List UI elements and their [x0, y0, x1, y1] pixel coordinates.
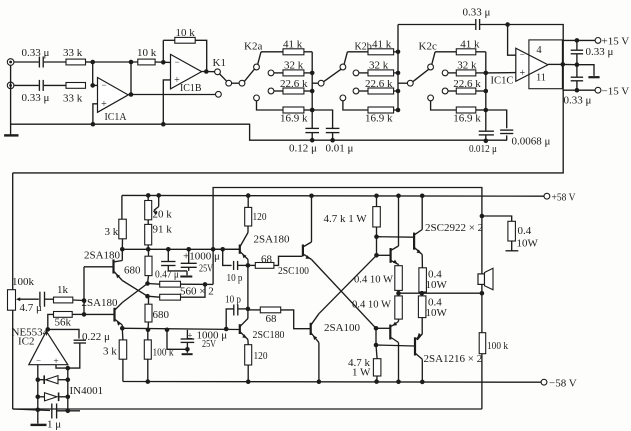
svg-text:K2a: K2a — [244, 41, 262, 53]
switch K1 pole contact — [215, 69, 221, 75]
wire 20k-91k — [147, 220, 149, 225]
junction 120l rail — [246, 379, 251, 384]
label R26 0.4 — [518, 225, 532, 237]
wire Q10 collector down — [421, 359, 423, 382]
wire Q8 collector down — [398, 343, 400, 382]
wire Q9 emitter stub — [421, 255, 423, 268]
label R22 0.4 10W — [352, 299, 392, 311]
svg-text:11: 11 — [536, 73, 546, 84]
wire 120u stubs — [247, 196, 249, 233]
label K2c 22.6k — [453, 78, 481, 90]
terminal +15V — [595, 38, 601, 44]
wire C9 verticals — [576, 66, 578, 90]
svg-text:+: + — [101, 99, 107, 110]
label IC2 — [18, 336, 35, 348]
resistor R2 33k — [66, 83, 86, 89]
wire C1 to R1 — [44, 61, 66, 63]
junction 20k wiper tap — [156, 193, 161, 198]
svg-text:41 k: 41 k — [283, 39, 303, 51]
diode D1 IN4001 left-pointing — [38, 375, 68, 384]
resistor R4 10k feedback — [175, 37, 195, 43]
svg-text:4.7 k 1 W: 4.7 k 1 W — [324, 213, 368, 225]
junction row249 fb — [211, 247, 216, 252]
label R16 68 — [266, 313, 278, 325]
svg-text:K1: K1 — [213, 57, 226, 69]
wire Q3 emitter down — [247, 260, 249, 266]
label K2c 41k — [460, 39, 480, 51]
resistor R12 560 lower — [160, 294, 181, 300]
speaker LS — [478, 268, 493, 290]
wire 68l left — [248, 309, 260, 311]
junction 680l rail — [146, 328, 151, 333]
junction C17 bottom — [185, 347, 190, 352]
capacitor C12 1u — [52, 404, 57, 419]
wire +58 rail — [122, 194, 544, 197]
junction Q5 collector rail — [309, 194, 314, 199]
resistor R16 68 lower — [260, 307, 280, 313]
label C3 0.12u — [289, 143, 317, 155]
wire D1 diagonal — [312, 260, 377, 329]
wire Q7 emitter stub — [398, 265, 400, 266]
svg-text:−: − — [36, 355, 41, 365]
svg-text:22.6 k: 22.6 k — [453, 78, 481, 90]
resistor R15 120 lower — [245, 345, 252, 365]
wire K2a 16.9k drop — [257, 101, 284, 110]
svg-text:0.33 μ: 0.33 μ — [586, 46, 614, 58]
wire C14 top — [188, 249, 190, 263]
junction IC1A gnd — [91, 122, 96, 127]
capacitor C2 0.33u — [39, 80, 43, 91]
junction gnd rail left — [36, 408, 41, 413]
label IN4001 — [70, 385, 104, 397]
gnd stub C17 — [182, 353, 193, 355]
label R24 10W — [426, 279, 448, 291]
resistor R22 0.4 10W — [395, 296, 403, 319]
wire 56k row — [72, 313, 84, 315]
wire C17 top — [186, 330, 188, 339]
wire node A to node B — [92, 62, 94, 85]
junction K2b bus — [396, 71, 401, 76]
wire bottom return — [13, 408, 482, 410]
capacitor C14 1000u 25V — [181, 263, 197, 267]
junction K2c bus rail — [484, 139, 489, 144]
svg-text:IC1B: IC1B — [180, 82, 202, 94]
switch K1 armature 1 — [220, 74, 227, 81]
label Q6 2SA100 — [324, 322, 361, 334]
capacitor C15 10p — [234, 261, 238, 270]
Q4 emitter arrow — [242, 334, 247, 338]
label R25 0.4 — [428, 297, 442, 309]
resistor R8 20k — [145, 201, 152, 220]
switch K1 open throw contact — [216, 91, 222, 97]
junction output line out — [420, 291, 425, 296]
svg-text:3 k: 3 k — [105, 226, 119, 238]
label IC1C — [491, 75, 514, 87]
wire R23 stubs — [376, 345, 377, 382]
wire D2 diagonal — [319, 255, 377, 313]
wire Q3 base — [223, 248, 240, 250]
svg-text:680: 680 — [124, 265, 141, 277]
wire 3k2 top — [121, 328, 124, 340]
resistor R1 33k — [66, 59, 86, 65]
wire left edge lower — [12, 310, 14, 409]
label C17 25V — [202, 338, 216, 350]
junction K2a bus — [310, 108, 315, 113]
svg-text:+: + — [53, 357, 58, 367]
junction fb inv node — [505, 22, 510, 27]
junction IC2 out — [46, 327, 51, 332]
wire K2c 16.9k drop — [431, 101, 457, 110]
label R6 56k — [55, 317, 72, 329]
svg-text:0.4 10 W: 0.4 10 W — [354, 274, 394, 286]
wire IC1C out down — [13, 64, 564, 172]
wire Q2 emitter down — [121, 325, 123, 328]
svg-text:100k: 100k — [12, 276, 35, 288]
input terminal J2 (lower) — [7, 82, 14, 89]
svg-text:0.012 μ: 0.012 μ — [469, 143, 497, 155]
Q6 emitter arrow — [313, 335, 317, 340]
junction 1000u2 tap — [165, 328, 170, 333]
wire IC2 inv stub — [37, 365, 39, 380]
wire Q8 emitter stub — [398, 319, 400, 321]
junction D2 right — [66, 395, 71, 400]
svg-text:+58 V: +58 V — [552, 192, 576, 204]
svg-text:−: − — [174, 57, 179, 67]
wire diode column left — [37, 380, 39, 412]
label R23 4.7k — [348, 357, 371, 369]
junction Q8-1216 node — [374, 343, 379, 348]
junction K2b bus — [396, 108, 401, 113]
wire C8 verticals — [576, 40, 578, 64]
label R4 10k — [176, 27, 196, 39]
wire K2c 41k row — [435, 51, 456, 53]
label K2a 32k — [284, 60, 304, 72]
label C7 0.0068u — [512, 136, 551, 148]
resistor K2c 32k — [456, 70, 476, 76]
junction C4 rail — [330, 138, 335, 143]
svg-text:33 k: 33 k — [63, 47, 83, 59]
wire C17 bottom — [186, 342, 188, 352]
wire analog ground rail — [11, 124, 507, 140]
wire K2b 41k row — [347, 51, 368, 53]
junction C14 top — [186, 247, 191, 252]
svg-text:25V: 25V — [199, 262, 213, 274]
svg-text:1 μ: 1 μ — [47, 419, 61, 431]
resistor K2b 16.9k — [368, 107, 394, 113]
wire 3k2 bottom — [122, 359, 124, 381]
junction bases node — [82, 298, 87, 303]
wire K2b 32k stub — [359, 72, 368, 74]
resistor K2b 32k — [368, 70, 394, 76]
label C14 +1000u — [183, 251, 220, 263]
resistor R3 10k — [138, 59, 155, 65]
wire Q8 base node down — [375, 328, 377, 345]
wire K2b 22.6k to bus — [394, 90, 398, 92]
resistor K2a 16.9k — [283, 107, 304, 113]
wire -58 rail — [123, 381, 541, 384]
transistor Q1 2SA180 upper — [114, 259, 123, 280]
svg-text:32 k: 32 k — [457, 60, 477, 72]
wire K2b 16.9k to bus — [394, 109, 398, 111]
switch K2a pole contact — [254, 64, 260, 70]
capacitor C16 10p lower — [234, 305, 238, 316]
wire C13 top — [167, 249, 169, 261]
terminal +58V — [544, 193, 550, 199]
resistor R6 56k — [54, 312, 73, 318]
junction IC1B inv node — [161, 60, 166, 65]
wire 68u left — [248, 264, 255, 266]
wire 560 up to row249 — [212, 249, 214, 284]
resistor K2b 41k — [368, 49, 394, 55]
label R27 100k — [487, 340, 508, 352]
junction row249 left — [120, 247, 125, 252]
R26 end bar — [506, 250, 519, 252]
wire C7 to rail — [506, 135, 508, 140]
wire Q1 collector up — [121, 249, 123, 260]
resistor K2a 22.6k — [283, 88, 304, 94]
ground input — [4, 134, 18, 136]
wire mid rail — [122, 328, 239, 329]
wire IC1B out to K1 — [202, 71, 215, 73]
wire 1k to bases node — [73, 299, 84, 302]
Q3 emitter arrow — [242, 254, 246, 259]
switch K1 contact 2 — [226, 80, 232, 86]
capacitor C6 0.012u — [479, 131, 494, 135]
wire R21-R22 — [398, 290, 400, 296]
wire K2a 22.6k stub — [274, 90, 283, 92]
label R3 10k — [137, 47, 157, 59]
label K2b — [355, 42, 372, 53]
switch K2c pole contact — [428, 64, 434, 70]
label C4 0.01u — [326, 143, 354, 155]
wire IC1A noninv to ground rail — [93, 104, 98, 124]
svg-text:680: 680 — [153, 309, 170, 321]
label C16 10p — [225, 294, 241, 306]
label R8 20k — [153, 209, 173, 221]
gnd stub first bank — [180, 271, 192, 278]
switch K2a throw 16.9k — [254, 95, 260, 101]
svg-text:0.33 μ: 0.33 μ — [22, 47, 50, 59]
wire R20 node down — [376, 237, 378, 256]
junction NFB tap — [480, 214, 485, 219]
svg-text:2SA180: 2SA180 — [82, 297, 119, 309]
junction IC1C output — [561, 62, 566, 67]
capacitor C3 0.12u — [305, 128, 319, 132]
svg-text:0.4 10 W: 0.4 10 W — [352, 299, 392, 311]
wire output line — [399, 292, 482, 294]
svg-text:2SA180: 2SA180 — [84, 250, 121, 262]
wire IC1B noninv to gnd rail — [163, 80, 170, 124]
wire 0.4 top branch — [482, 216, 512, 221]
resistor R10 680 upper — [145, 256, 152, 275]
wire out to cap mid — [563, 63, 577, 65]
svg-text:68: 68 — [266, 313, 278, 325]
junction R20 top — [374, 194, 379, 199]
junction 20k top — [146, 193, 151, 198]
wire fb right seg — [195, 40, 207, 71]
wire VAS vertical — [247, 265, 249, 318]
wire 20k stub — [147, 195, 149, 200]
junction -15 cap tap — [575, 88, 580, 93]
svg-text:56k: 56k — [55, 317, 72, 329]
svg-text:IN4001: IN4001 — [70, 385, 104, 397]
svg-text:0.12 μ: 0.12 μ — [289, 143, 317, 155]
svg-text:1k: 1k — [57, 284, 69, 296]
svg-text:68: 68 — [261, 253, 273, 265]
wire K2c 22.6k stub — [448, 90, 456, 92]
wire into K2c — [398, 82, 407, 84]
wire 1216 emitter lead — [417, 318, 422, 340]
junction row249 91k — [146, 247, 151, 252]
op-amp IC2 NE5534 up-pointing — [29, 331, 68, 367]
switch K2c throw 22.6k — [442, 88, 448, 94]
junction row1 at x131 — [129, 60, 134, 65]
wire 56k left to IC2 out — [48, 314, 54, 329]
capacitor C13 0.47u — [161, 262, 175, 266]
transistor Q9 2SC2922 — [414, 230, 422, 255]
wire 3k1 top — [121, 195, 123, 219]
label K2a 16.9k — [280, 113, 308, 125]
op-amp IC1A — [98, 78, 129, 113]
wire row249 — [122, 248, 240, 250]
label K2b 16.9k — [365, 113, 393, 125]
svg-text:25V: 25V — [202, 338, 216, 350]
svg-text:100 k: 100 k — [487, 340, 508, 352]
label pin 4 — [536, 45, 542, 56]
label C14 25V — [199, 262, 213, 274]
label K2a 22.6k — [280, 78, 308, 90]
junction K2c bus — [484, 71, 489, 76]
switch K2a throw 32k — [268, 70, 274, 76]
junction IC1A out — [129, 92, 134, 97]
label R24 0.4 — [428, 269, 442, 281]
junction Q6 emitter rail — [317, 379, 322, 384]
wire 680l bottom — [147, 322, 150, 330]
label 560x2 — [180, 286, 214, 298]
resistor R18 3k lower — [119, 340, 127, 359]
junction Q2 emitter rail — [120, 326, 125, 331]
wire K2a 32k stub — [274, 72, 283, 74]
wire R24-R25 — [421, 292, 423, 296]
resistor R9 91k — [145, 224, 152, 245]
wire 0.01u branch — [312, 110, 332, 128]
wire 3k1 bottom — [121, 239, 123, 250]
wire node B to IC1A inv input — [93, 84, 98, 86]
junction K2c bus — [484, 108, 489, 113]
wire 10p1 branch — [223, 249, 232, 265]
resistor K2a 32k — [283, 70, 304, 76]
transistor Q2 2SA180 lower — [115, 303, 123, 326]
wire R1 to node A — [86, 61, 93, 63]
resistor R20 4.7k 1W — [373, 207, 381, 227]
switch K2b armature to 41k row — [344, 52, 347, 65]
label C9 0.33u — [564, 95, 592, 107]
svg-text:20 k: 20 k — [153, 209, 173, 221]
switch K2c armature lower — [413, 69, 429, 82]
wire NFB riser — [213, 188, 482, 250]
Q2 emitter arrow — [117, 321, 121, 326]
label R1 33k — [63, 47, 83, 59]
wire R20 stubs — [376, 196, 378, 237]
Q8 emitter arrow — [392, 322, 397, 326]
svg-text:32 k: 32 k — [284, 60, 304, 72]
wire bottom gnd rail2 — [57, 410, 80, 412]
resistor R24 0.4 10W out — [419, 268, 427, 292]
label IC1B — [180, 82, 202, 94]
wire Q6 emitter down — [318, 343, 320, 382]
junction VAS 10p2 node — [246, 307, 251, 312]
wire 560u right — [181, 283, 214, 285]
junction 16.9k row K2a — [310, 108, 315, 113]
ground NE5534 — [31, 410, 47, 426]
bus K2a — [311, 52, 313, 110]
junction output mid — [396, 291, 401, 296]
switch K2a armature to 41k row — [258, 52, 261, 65]
label pin 11 — [536, 73, 546, 84]
switch K2b throw 22.6k — [353, 88, 359, 94]
Q9 emitter arrow — [417, 249, 422, 253]
wire K2c bus to IC1C plus — [486, 72, 516, 74]
op-amp IC1B — [171, 54, 202, 89]
wire 680u bottom — [148, 276, 149, 284]
wire K2b 32k to bus — [394, 72, 398, 74]
svg-text:91 k: 91 k — [153, 224, 173, 236]
wire C16 right — [238, 308, 248, 310]
label C1 0.33u — [22, 47, 50, 59]
transistor Q3 2SA180 mid — [240, 233, 248, 260]
svg-text:120: 120 — [253, 211, 267, 223]
label R20 4.7k 1W — [324, 213, 368, 225]
switch K2c throw 32k — [442, 70, 448, 76]
label R10 680 — [124, 265, 141, 277]
wire VBE wire right — [377, 236, 414, 239]
capacitor C9 0.33u — [571, 77, 583, 81]
svg-text:41 k: 41 k — [460, 39, 480, 51]
label R15 120 — [254, 350, 268, 362]
label C13 0.47u — [155, 269, 179, 281]
label K2b 32k — [369, 60, 389, 72]
wire to Q2 base — [84, 313, 114, 315]
wire K1 link — [232, 82, 240, 84]
label C2 0.33u — [22, 92, 50, 104]
svg-text:16.9 k: 16.9 k — [453, 113, 481, 125]
svg-text:0.4: 0.4 — [518, 225, 532, 237]
junction 560 lower-left — [145, 294, 150, 299]
label K2c — [419, 41, 437, 53]
svg-text:0.33 μ: 0.33 μ — [22, 92, 50, 104]
Q5 emitter arrow — [306, 255, 311, 259]
junction Q3 emitter node — [246, 263, 251, 268]
junction IC1B gnd — [161, 122, 166, 127]
switch K1 armature 2 — [244, 69, 254, 81]
wire bottom gnd rail — [13, 409, 50, 411]
svg-text:4: 4 — [536, 45, 542, 56]
wire J1 to C1 — [14, 61, 39, 63]
label R7 3k — [105, 226, 119, 238]
junction Q10 collector rail — [420, 380, 425, 385]
label K2c 16.9k — [453, 113, 481, 125]
transistor Q6 2SA100 — [311, 314, 319, 343]
wire 560u left — [148, 283, 160, 286]
wire left edge upper — [12, 173, 14, 290]
wire Q8 base — [376, 327, 390, 329]
wire Q2 collector X — [122, 284, 147, 303]
Q7 emitter arrow — [393, 260, 398, 264]
wire gnd stub power — [577, 65, 594, 76]
node B junction — [90, 83, 95, 88]
label R18 3k — [103, 346, 117, 358]
junction base node Q3 — [220, 247, 225, 252]
